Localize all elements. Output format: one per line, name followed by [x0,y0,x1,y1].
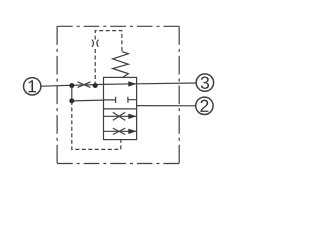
port 3 circle [196,74,213,91]
port 2 circle [196,97,213,114]
wire main line port1 to port3 [41,83,196,86]
restricted path lower [104,130,137,132]
port 1 circle [24,78,41,95]
junction B [93,83,98,88]
wire port 2 line [137,105,196,107]
orifice X upper [113,112,125,120]
restricted path upper [104,115,137,117]
pilot orifice [92,40,99,47]
port 3 label [201,76,209,88]
arrowhead lower [128,129,136,134]
arrow flow path 1-3 [128,81,136,86]
wire junction A down [71,86,73,101]
envelope divider [104,108,137,110]
valve envelope [104,77,137,139]
boundary left edge (dash-dot) [56,26,58,163]
blocked port left [104,97,116,103]
port 1 label [28,80,36,92]
pilot line dashed up from B [95,31,122,86]
junction A [69,83,74,88]
orifice X lower [113,128,125,134]
pilot drain dashed loop [72,101,121,149]
wire junction C to valve left [72,99,104,102]
spring [113,52,129,78]
orifice X on inlet line [78,82,91,88]
boundary bottom edge (dash-dot) [57,163,179,165]
blocked port right [128,97,137,103]
boundary top edge (dash-dot) [57,25,179,27]
junction C [69,98,74,103]
port 2 label [200,100,208,112]
arrowhead upper [128,114,136,119]
boundary right edge (dash-dot) [178,26,180,163]
